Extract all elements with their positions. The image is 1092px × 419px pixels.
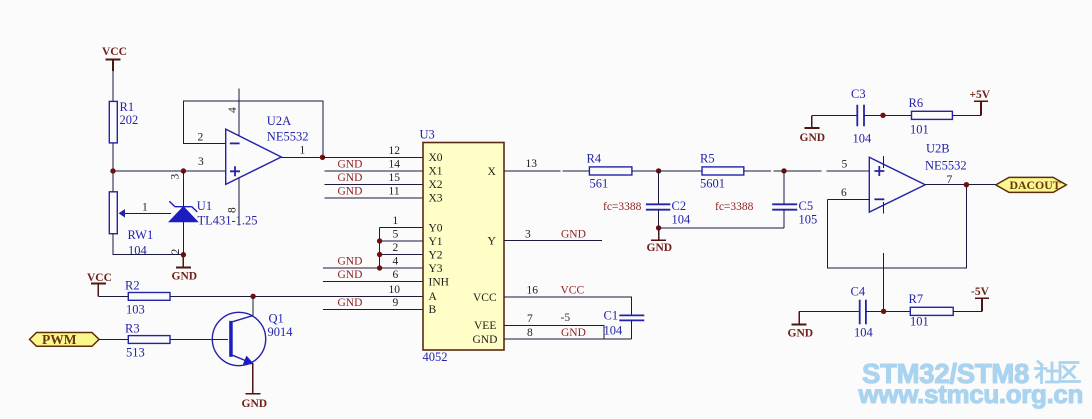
svg-text:C1: C1 — [604, 309, 619, 323]
wire GND to C4 — [799, 310, 860, 312]
svg-text:1: 1 — [142, 202, 148, 214]
svg-text:R4: R4 — [587, 152, 602, 166]
svg-text:C4: C4 — [851, 285, 866, 299]
wire Y0 — [380, 227, 423, 229]
resistor R1 — [109, 100, 138, 143]
wire C3 to R6 — [864, 114, 912, 116]
power VCC top-left — [102, 46, 127, 71]
svg-text:VEE: VEE — [474, 320, 496, 332]
svg-text:3: 3 — [525, 228, 531, 240]
svg-text:101: 101 — [910, 315, 929, 329]
wire R6 to +5V — [952, 114, 981, 116]
feedback wire U2A — [183, 101, 323, 157]
wire GND to C3 — [812, 114, 858, 116]
op-amp U2B — [869, 142, 966, 214]
svg-text:GND: GND — [788, 328, 814, 340]
svg-text:GND: GND — [338, 159, 363, 171]
svg-text:GND: GND — [561, 228, 586, 240]
junction U2B output — [964, 182, 969, 187]
svg-text:GND: GND — [561, 327, 586, 339]
wire R3 to Q1 base — [170, 339, 228, 341]
svg-text:U1: U1 — [197, 199, 212, 213]
junction C2 bottom — [656, 225, 661, 230]
svg-text:9014: 9014 — [268, 325, 294, 339]
wire B with GND — [323, 308, 423, 310]
svg-text:VCC: VCC — [473, 292, 497, 304]
wire C4 to R7 — [866, 310, 910, 312]
svg-text:11: 11 — [389, 186, 400, 198]
svg-text:C2: C2 — [672, 199, 687, 213]
wire node to op-amp pin3 — [113, 170, 226, 172]
svg-text:1: 1 — [300, 145, 306, 157]
watermark CJK — [1036, 362, 1080, 383]
svg-text:3: 3 — [198, 156, 204, 168]
svg-text:8: 8 — [527, 327, 533, 339]
svg-text:GND: GND — [338, 269, 363, 281]
svg-text:Y1: Y1 — [429, 236, 443, 248]
svg-text:X0: X0 — [429, 152, 443, 164]
svg-text:PWM: PWM — [42, 332, 77, 347]
svg-text:VCC: VCC — [87, 272, 112, 284]
svg-text:105: 105 — [799, 213, 818, 227]
svg-text:1: 1 — [393, 215, 399, 227]
wire R4 to C2 node — [632, 170, 659, 172]
capacitor C4 — [851, 285, 874, 340]
svg-text:6: 6 — [393, 269, 399, 281]
svg-text:INH: INH — [429, 276, 449, 288]
resistor R4 — [587, 152, 632, 191]
wire Y pin3 with GND — [504, 240, 602, 242]
wire VCC to R2 — [98, 295, 128, 297]
wire GND pin8 — [504, 338, 632, 340]
svg-text:12: 12 — [389, 145, 401, 157]
port DACOUT — [996, 177, 1067, 192]
wire X2 with GND — [324, 183, 423, 185]
port PWM — [30, 332, 100, 347]
svg-text:NE5532: NE5532 — [267, 130, 309, 144]
svg-text:Y3: Y3 — [429, 263, 443, 275]
wire X3 with GND — [324, 197, 423, 199]
op-amp U2A — [226, 88, 309, 225]
resistor R3 — [125, 322, 170, 360]
svg-text:VCC: VCC — [561, 285, 585, 297]
wire A pin — [170, 295, 423, 297]
svg-text:GND: GND — [338, 297, 363, 309]
svg-text:104: 104 — [672, 213, 692, 227]
ground GND left of C3 — [800, 115, 826, 144]
svg-text:C3: C3 — [851, 87, 866, 101]
wire Y3 with GND — [323, 267, 423, 269]
bottom wire C2 to C5 — [659, 227, 784, 229]
svg-text:15: 15 — [389, 172, 401, 184]
wire VEE pin7 — [504, 325, 604, 339]
svg-text:2: 2 — [170, 249, 182, 255]
svg-text:16: 16 — [527, 285, 539, 297]
feedback loop U2B — [828, 185, 967, 269]
bus vertical Y0-Y3 — [379, 228, 381, 269]
wire R5 to C5 node — [744, 170, 870, 172]
wire Y1 — [380, 240, 423, 242]
wire pin6 — [828, 198, 870, 200]
svg-text:13: 13 — [526, 158, 538, 170]
svg-text:GND: GND — [172, 271, 198, 283]
junction Y1 — [377, 238, 382, 243]
svg-text:X2: X2 — [429, 179, 443, 191]
svg-text:561: 561 — [590, 177, 609, 191]
svg-text:U2A: U2A — [267, 114, 291, 128]
wire X0 — [323, 156, 424, 158]
svg-text:VCC: VCC — [102, 46, 127, 58]
svg-text:-5V: -5V — [971, 286, 990, 298]
svg-text:X: X — [488, 166, 497, 178]
wire RW1 wiper to U1 pin1 — [125, 212, 171, 214]
ground GND under C2 — [647, 228, 673, 254]
svg-text:R5: R5 — [700, 152, 715, 166]
resistor R7 — [909, 292, 954, 329]
wire Y2 — [380, 254, 423, 256]
svg-text:2: 2 — [393, 242, 399, 254]
svg-text:GND: GND — [800, 132, 826, 144]
svg-text:R2: R2 — [125, 279, 140, 293]
resistor R2 — [125, 279, 170, 317]
capacitor C1 — [604, 309, 645, 340]
svg-text:GND: GND — [242, 398, 268, 410]
svg-text:202: 202 — [120, 113, 139, 127]
junction U2A output — [320, 155, 325, 160]
svg-text:Y2: Y2 — [429, 249, 443, 261]
svg-text:A: A — [429, 291, 438, 303]
svg-text:fc=3388: fc=3388 — [603, 201, 642, 213]
svg-text:5: 5 — [393, 229, 399, 241]
svg-text:www.stmcu.org.cn: www.stmcu.org.cn — [858, 379, 1084, 409]
junction Q1 collector node — [250, 294, 255, 299]
junction node at R1/RW1 — [110, 168, 115, 173]
svg-text:4: 4 — [393, 256, 399, 268]
svg-text:R7: R7 — [909, 292, 924, 306]
junction node U1 anode — [181, 252, 186, 257]
power VCC above R2 — [87, 272, 112, 296]
svg-text:GND: GND — [338, 186, 363, 198]
svg-text:R1: R1 — [120, 100, 135, 114]
svg-text:4: 4 — [227, 107, 239, 113]
svg-text:U2B: U2B — [926, 142, 950, 156]
svg-text:NE5532: NE5532 — [925, 159, 967, 173]
svg-text:DACOUT: DACOUT — [1010, 178, 1061, 192]
resistor R5 — [700, 152, 744, 191]
svg-text:104: 104 — [604, 324, 624, 338]
svg-text:6: 6 — [841, 187, 847, 199]
wire PWM to R3 — [99, 339, 128, 341]
svg-text:14: 14 — [389, 159, 401, 171]
resistor R6 — [909, 96, 953, 137]
wire R7 to -5V — [953, 310, 982, 312]
svg-text:RW1: RW1 — [128, 228, 154, 242]
ground GND under U1 — [172, 255, 198, 283]
potentiometer RW1 — [109, 192, 153, 258]
junction C3-R6 — [880, 113, 885, 118]
svg-text:7: 7 — [527, 313, 533, 325]
wire node to R5 — [659, 170, 702, 172]
wire X output pin13 — [504, 170, 589, 172]
svg-text:104: 104 — [854, 326, 874, 340]
svg-text:Q1: Q1 — [269, 312, 284, 326]
junction C2 top — [656, 168, 661, 173]
wire X1 with GND — [324, 170, 423, 172]
svg-text:5: 5 — [842, 159, 848, 171]
svg-text:103: 103 — [126, 303, 145, 317]
svg-text:GND: GND — [338, 172, 363, 184]
junction node at U1 top — [181, 168, 186, 173]
wire VCC pin16 — [504, 297, 632, 315]
ground GND under Q1 — [242, 364, 268, 410]
svg-text:Y: Y — [488, 236, 497, 248]
wire RW1 bottom to U1 anode — [113, 234, 183, 255]
U2B output wire — [925, 184, 996, 186]
power -5V — [971, 286, 990, 311]
capacitor C2 — [646, 171, 691, 228]
svg-text:X1: X1 — [429, 166, 443, 178]
svg-text:Y0: Y0 — [429, 222, 443, 234]
ground GND left of C4 — [788, 311, 814, 339]
svg-text:10: 10 — [389, 284, 401, 296]
svg-text:GND: GND — [647, 242, 673, 254]
svg-text:GND: GND — [338, 256, 363, 268]
svg-text:TL431-1.25: TL431-1.25 — [198, 214, 258, 228]
svg-text:GND: GND — [473, 334, 498, 346]
svg-text:U3: U3 — [420, 128, 435, 142]
svg-text:4052: 4052 — [423, 350, 448, 364]
junction Y2 — [377, 252, 382, 257]
vertical to C4 node — [883, 253, 885, 311]
multiplexer U3 4052 — [420, 128, 505, 365]
svg-text:513: 513 — [126, 346, 145, 360]
transistor Q1 — [212, 296, 293, 365]
svg-text:fc=3388: fc=3388 — [715, 201, 754, 213]
svg-text:9: 9 — [393, 297, 399, 309]
svg-text:3: 3 — [170, 174, 182, 180]
svg-text:X3: X3 — [429, 193, 443, 205]
wire VCC to R1 — [112, 70, 114, 101]
svg-text:8: 8 — [227, 207, 239, 213]
svg-text:R6: R6 — [909, 96, 924, 110]
svg-text:5601: 5601 — [700, 177, 725, 191]
svg-text:C5: C5 — [799, 199, 814, 213]
junction C5 top — [781, 168, 786, 173]
svg-text:B: B — [429, 304, 437, 316]
svg-text:104: 104 — [128, 244, 148, 258]
svg-text:2: 2 — [198, 132, 204, 144]
junction Y3 — [377, 265, 382, 270]
power +5V — [970, 89, 991, 115]
U2A output wire — [281, 156, 322, 158]
junction C4-R7 — [881, 309, 886, 314]
svg-text:104: 104 — [853, 132, 873, 146]
capacitor C5 — [772, 171, 817, 228]
svg-text:-5: -5 — [561, 312, 571, 324]
wire INH with GND — [323, 281, 423, 283]
svg-text:+5V: +5V — [970, 89, 991, 101]
regulator U1 TL431 — [169, 171, 257, 255]
capacitor C3 — [851, 87, 872, 146]
wire R1 bottom to node — [112, 143, 114, 192]
svg-text:R3: R3 — [125, 322, 140, 336]
svg-text:101: 101 — [910, 123, 929, 137]
